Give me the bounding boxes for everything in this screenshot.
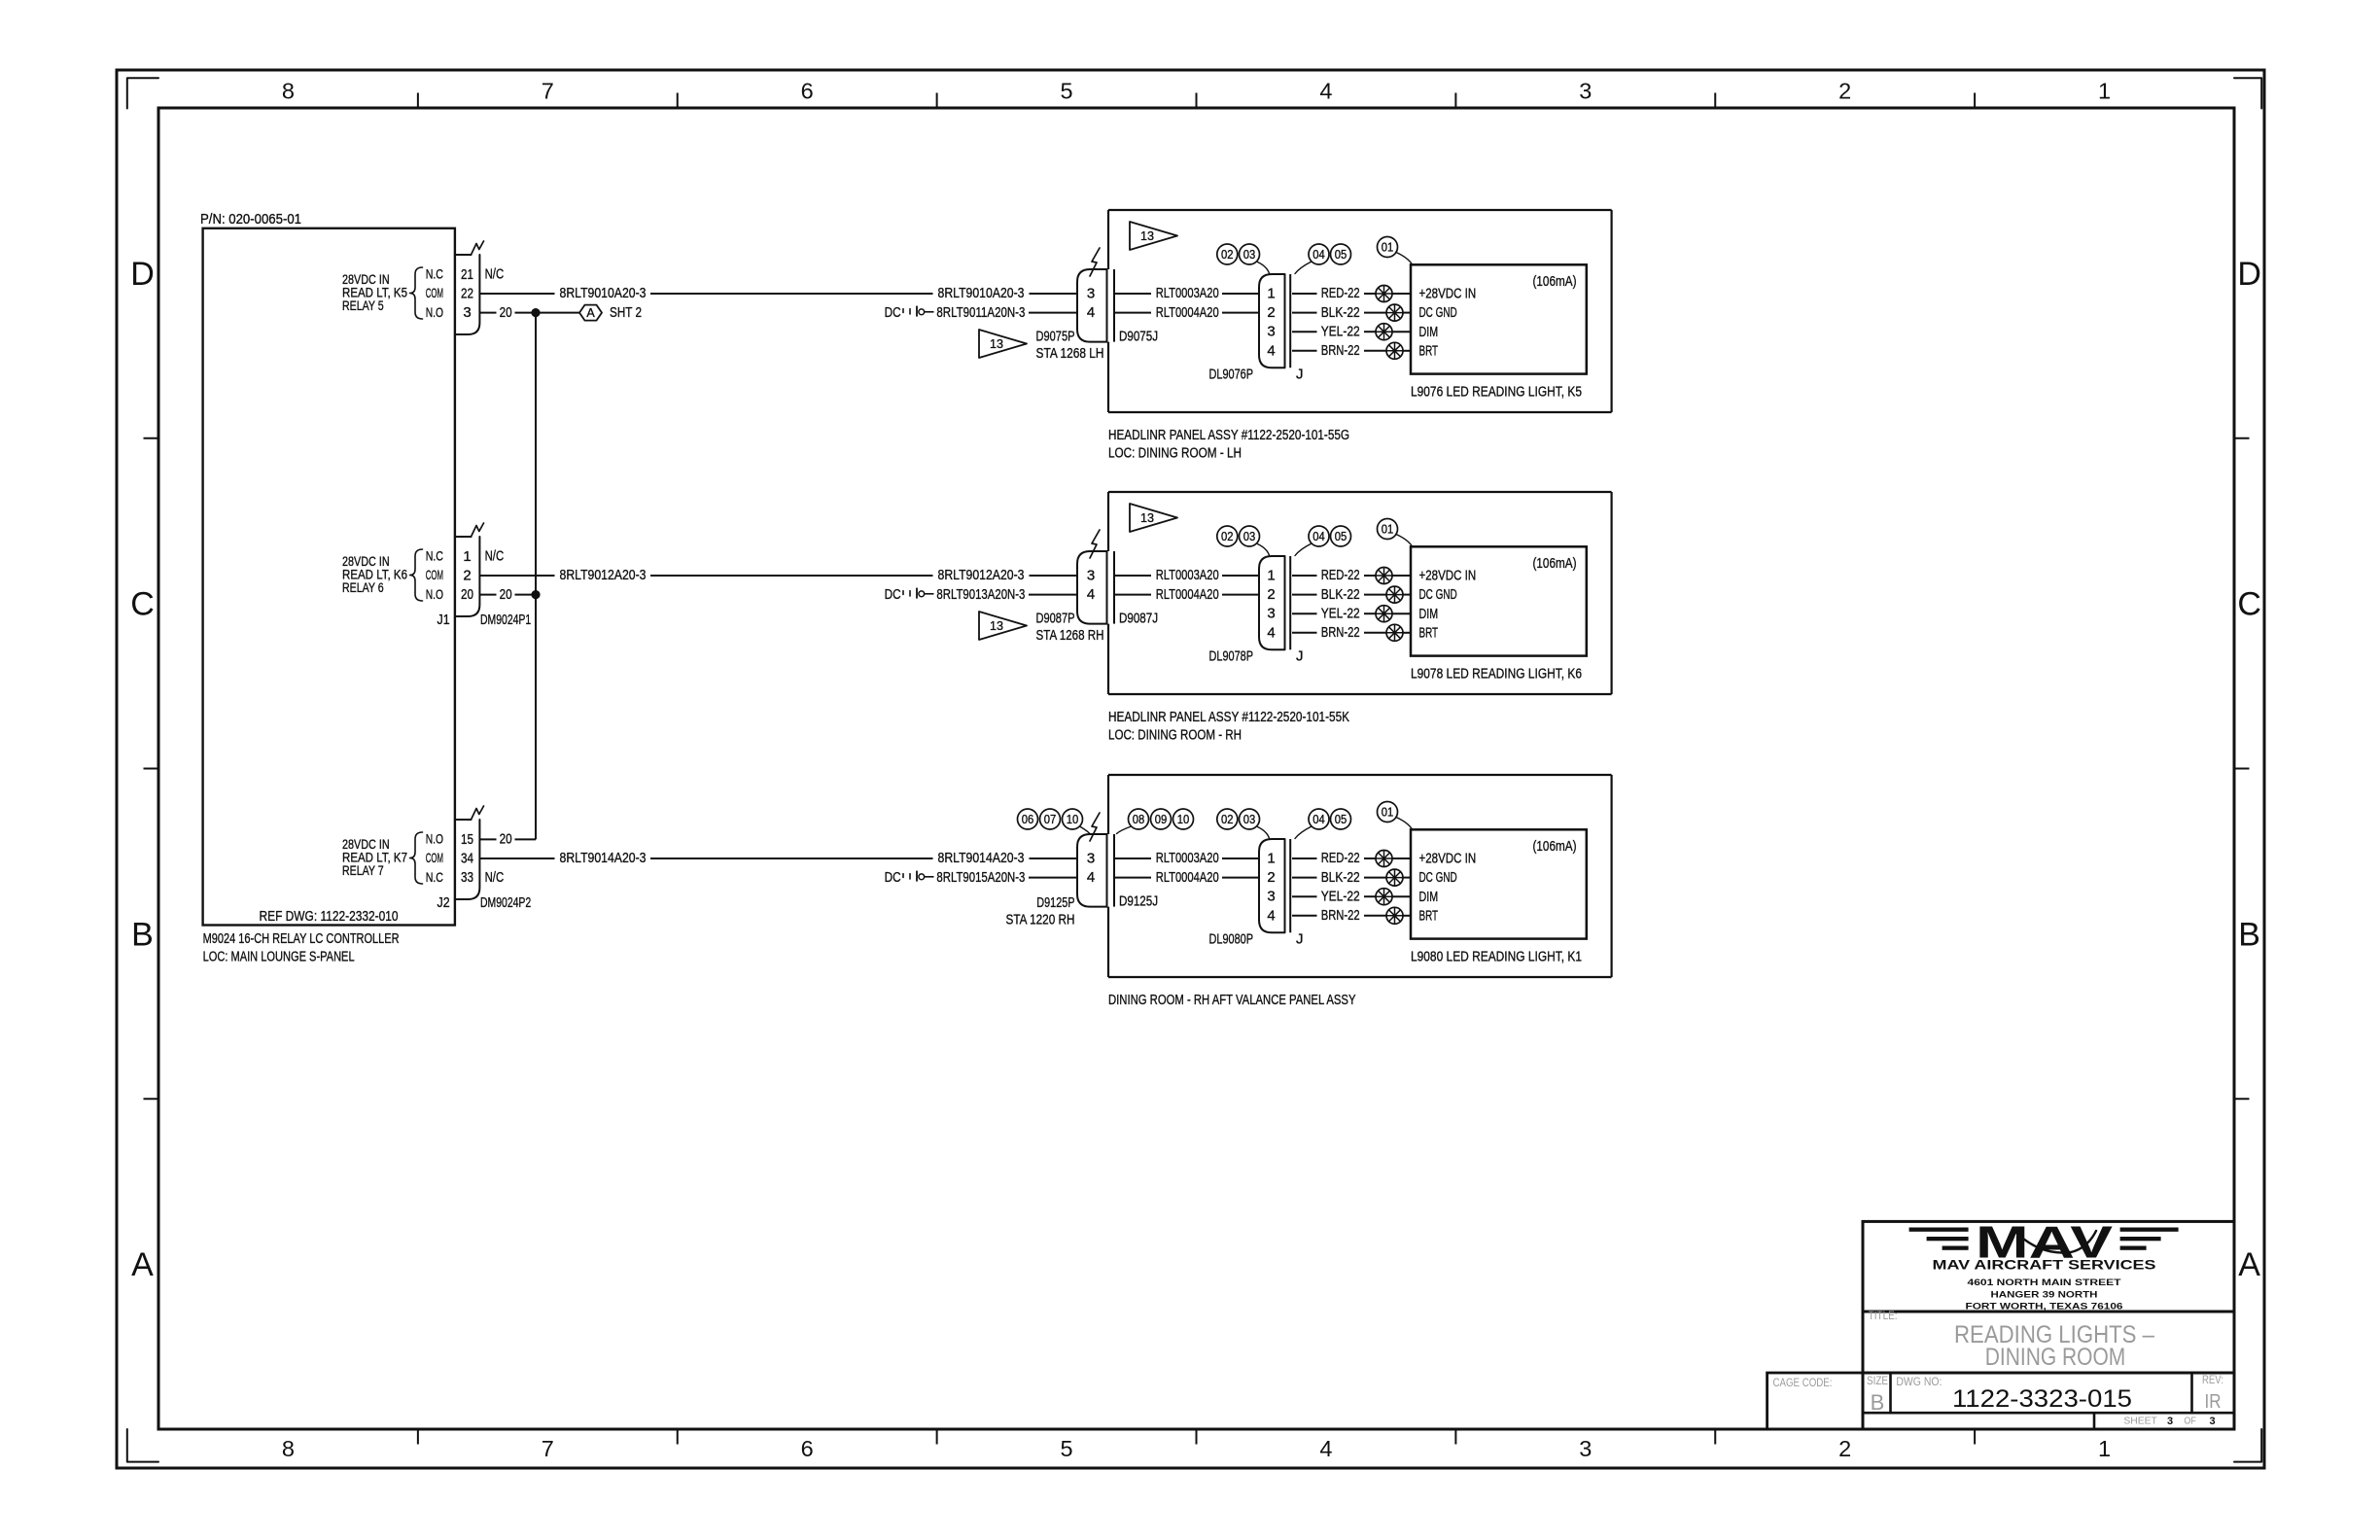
svg-text:J: J xyxy=(1296,366,1304,382)
svg-text:8RLT9014A20-3: 8RLT9014A20-3 xyxy=(938,850,1025,866)
svg-text:D9087J: D9087J xyxy=(1119,611,1158,627)
svg-text:2: 2 xyxy=(1267,869,1275,886)
svg-text:8RLT9015A20N-3: 8RLT9015A20N-3 xyxy=(936,869,1025,886)
svg-text:DC: DC xyxy=(885,304,901,321)
svg-text:A: A xyxy=(2238,1246,2260,1283)
svg-text:SHT 2: SHT 2 xyxy=(610,304,642,321)
svg-text:3: 3 xyxy=(2167,1416,2173,1427)
svg-text:RELAY 6: RELAY 6 xyxy=(342,579,384,595)
svg-text:8RLT9013A20N-3: 8RLT9013A20N-3 xyxy=(936,586,1025,603)
svg-text:BRT: BRT xyxy=(1419,624,1439,641)
svg-text:BRN-22: BRN-22 xyxy=(1321,907,1360,924)
svg-text:D9125J: D9125J xyxy=(1119,893,1158,910)
svg-text:8RLT9011A20N-3: 8RLT9011A20N-3 xyxy=(936,304,1025,321)
svg-text:A: A xyxy=(131,1246,154,1283)
svg-text:M9024 16-CH RELAY LC CONTROLLE: M9024 16-CH RELAY LC CONTROLLER xyxy=(203,930,400,947)
svg-text:RED-22: RED-22 xyxy=(1321,285,1360,301)
svg-text:03: 03 xyxy=(1243,813,1256,826)
svg-text:6: 6 xyxy=(801,78,814,103)
svg-text:22: 22 xyxy=(461,286,473,302)
svg-text:RED-22: RED-22 xyxy=(1321,850,1360,866)
svg-text:RLT0003A20: RLT0003A20 xyxy=(1156,285,1219,301)
svg-text:04: 04 xyxy=(1312,248,1325,262)
svg-text:1: 1 xyxy=(2098,78,2111,103)
svg-text:34: 34 xyxy=(461,851,473,867)
svg-text:HEADLINR PANEL ASSY #1122-2520: HEADLINR PANEL ASSY #1122-2520-101-55K xyxy=(1108,709,1349,725)
svg-text:DM9024P1: DM9024P1 xyxy=(480,612,531,628)
svg-text:4: 4 xyxy=(1087,586,1095,603)
svg-text:3: 3 xyxy=(2209,1416,2215,1427)
svg-text:DIM: DIM xyxy=(1419,324,1439,340)
svg-text:4: 4 xyxy=(1267,907,1275,924)
svg-text:DC GND: DC GND xyxy=(1419,586,1457,603)
svg-text:2: 2 xyxy=(1267,586,1275,603)
svg-text:FORT WORTH, TEXAS 76106: FORT WORTH, TEXAS 76106 xyxy=(1966,1302,2123,1312)
svg-text:3: 3 xyxy=(1087,286,1095,302)
svg-text:LOC: DINING ROOM - RH: LOC: DINING ROOM - RH xyxy=(1108,727,1242,744)
svg-text:04: 04 xyxy=(1312,813,1325,826)
svg-text:02: 02 xyxy=(1221,530,1234,543)
svg-text:10: 10 xyxy=(1067,813,1079,826)
svg-text:+28VDC IN: +28VDC IN xyxy=(1419,851,1477,867)
svg-text:BLK-22: BLK-22 xyxy=(1321,869,1360,886)
svg-text:DIM: DIM xyxy=(1419,889,1439,905)
svg-text:BLK-22: BLK-22 xyxy=(1321,586,1360,603)
svg-text:1: 1 xyxy=(1267,568,1275,584)
svg-text:COM: COM xyxy=(426,285,443,300)
svg-text:RELAY 5: RELAY 5 xyxy=(342,297,384,313)
svg-text:N.O: N.O xyxy=(426,586,443,602)
svg-text:1: 1 xyxy=(463,548,471,565)
svg-text:(106mA): (106mA) xyxy=(1533,555,1577,572)
svg-text:03: 03 xyxy=(1243,530,1256,543)
svg-text:D9075P: D9075P xyxy=(1036,329,1075,345)
svg-text:RLT0004A20: RLT0004A20 xyxy=(1156,869,1219,886)
svg-text:RLT0003A20: RLT0003A20 xyxy=(1156,850,1219,866)
svg-text:BLK-22: BLK-22 xyxy=(1321,304,1360,321)
svg-text:B: B xyxy=(131,916,154,953)
svg-text:2: 2 xyxy=(1267,304,1275,321)
svg-text:B: B xyxy=(2238,916,2260,953)
svg-text:P/N: 020-0065-01: P/N: 020-0065-01 xyxy=(200,211,301,227)
svg-text:13: 13 xyxy=(990,336,1003,351)
svg-text:DL9078P: DL9078P xyxy=(1209,647,1254,664)
svg-text:21: 21 xyxy=(461,266,473,283)
svg-text:(106mA): (106mA) xyxy=(1533,838,1577,855)
svg-text:C: C xyxy=(130,586,155,623)
svg-text:YEL-22: YEL-22 xyxy=(1321,323,1360,339)
svg-text:01: 01 xyxy=(1382,522,1394,536)
svg-text:15: 15 xyxy=(461,831,473,848)
svg-text:09: 09 xyxy=(1155,813,1168,826)
svg-text:N.O: N.O xyxy=(426,304,443,320)
svg-text:B: B xyxy=(1871,1390,1885,1415)
svg-text:STA 1268 LH: STA 1268 LH xyxy=(1036,345,1104,362)
svg-text:20: 20 xyxy=(500,831,512,848)
svg-text:REF DWG: 1122-2332-010: REF DWG: 1122-2332-010 xyxy=(260,908,399,925)
svg-text:05: 05 xyxy=(1335,530,1347,543)
svg-text:01: 01 xyxy=(1382,805,1394,819)
svg-text:4601 NORTH MAIN STREET: 4601 NORTH MAIN STREET xyxy=(1968,1277,2121,1288)
svg-text:COM: COM xyxy=(426,850,443,865)
svg-text:3: 3 xyxy=(463,304,471,321)
svg-text:02: 02 xyxy=(1221,248,1234,262)
svg-text:+28VDC IN: +28VDC IN xyxy=(1419,568,1477,584)
svg-text:(106mA): (106mA) xyxy=(1533,273,1577,290)
svg-text:8RLT9014A20-3: 8RLT9014A20-3 xyxy=(560,850,647,866)
svg-text:BRN-22: BRN-22 xyxy=(1321,342,1360,359)
svg-text:OF: OF xyxy=(2184,1417,2196,1427)
svg-text:1: 1 xyxy=(1267,286,1275,302)
svg-text:8RLT9012A20-3: 8RLT9012A20-3 xyxy=(938,567,1025,583)
svg-text:3: 3 xyxy=(1267,324,1275,340)
svg-text:8RLT9012A20-3: 8RLT9012A20-3 xyxy=(560,567,647,583)
svg-text:D: D xyxy=(130,256,155,293)
svg-text:RLT0004A20: RLT0004A20 xyxy=(1156,586,1219,603)
svg-text:5: 5 xyxy=(1061,1436,1073,1461)
svg-text:10: 10 xyxy=(1177,813,1190,826)
svg-text:8RLT9010A20-3: 8RLT9010A20-3 xyxy=(938,285,1025,301)
svg-text:20: 20 xyxy=(461,586,473,603)
svg-text:N/C: N/C xyxy=(485,548,505,565)
svg-text:2: 2 xyxy=(1838,1436,1851,1461)
svg-text:TITLE:: TITLE: xyxy=(1869,1311,1898,1322)
svg-text:J: J xyxy=(1296,647,1304,664)
svg-text:7: 7 xyxy=(542,78,554,103)
svg-text:3: 3 xyxy=(1579,78,1592,103)
svg-text:N/C: N/C xyxy=(485,869,505,886)
svg-text:D9087P: D9087P xyxy=(1036,611,1075,627)
svg-text:J1: J1 xyxy=(437,612,450,628)
svg-text:D: D xyxy=(2237,256,2261,293)
svg-text:REV:: REV: xyxy=(2202,1375,2223,1386)
svg-text:N.C: N.C xyxy=(426,548,443,564)
svg-text:N.O: N.O xyxy=(426,831,443,847)
svg-text:2: 2 xyxy=(463,568,471,584)
svg-text:BRN-22: BRN-22 xyxy=(1321,624,1360,641)
svg-text:LOC: MAIN LOUNGE S-PANEL: LOC: MAIN LOUNGE S-PANEL xyxy=(203,949,355,965)
svg-text:BRT: BRT xyxy=(1419,342,1439,359)
svg-text:4: 4 xyxy=(1319,78,1332,103)
svg-text:IR: IR xyxy=(2205,1391,2222,1413)
svg-text:DM9024P2: DM9024P2 xyxy=(480,894,531,911)
svg-text:07: 07 xyxy=(1044,813,1057,826)
svg-text:RLT0003A20: RLT0003A20 xyxy=(1156,567,1219,583)
svg-text:13: 13 xyxy=(990,618,1003,633)
svg-text:CAGE CODE:: CAGE CODE: xyxy=(1773,1378,1833,1389)
svg-text:RLT0004A20: RLT0004A20 xyxy=(1156,304,1219,321)
svg-text:STA 1268 RH: STA 1268 RH xyxy=(1036,627,1104,644)
svg-text:J2: J2 xyxy=(437,894,450,911)
svg-text:04: 04 xyxy=(1312,530,1325,543)
svg-text:8: 8 xyxy=(282,78,295,103)
svg-text:L9076 LED READING LIGHT, K5: L9076 LED READING LIGHT, K5 xyxy=(1411,384,1582,401)
svg-text:2: 2 xyxy=(1838,78,1851,103)
svg-text:STA 1220 RH: STA 1220 RH xyxy=(1006,912,1075,928)
svg-text:8: 8 xyxy=(282,1436,295,1461)
svg-text:YEL-22: YEL-22 xyxy=(1321,888,1360,904)
svg-text:02: 02 xyxy=(1221,813,1234,826)
svg-text:A: A xyxy=(586,306,595,320)
svg-text:20: 20 xyxy=(500,586,512,603)
svg-text:33: 33 xyxy=(461,869,473,886)
svg-text:DIM: DIM xyxy=(1419,606,1439,622)
svg-text:MAV AIRCRAFT SERVICES: MAV AIRCRAFT SERVICES xyxy=(1933,1258,2156,1273)
svg-text:4: 4 xyxy=(1087,304,1095,321)
svg-text:DL9076P: DL9076P xyxy=(1209,366,1254,382)
svg-text:YEL-22: YEL-22 xyxy=(1321,605,1360,621)
svg-text:BRT: BRT xyxy=(1419,907,1439,924)
svg-text:L9080 LED READING LIGHT, K1: L9080 LED READING LIGHT, K1 xyxy=(1411,949,1582,965)
svg-text:1: 1 xyxy=(2098,1436,2111,1461)
svg-text:D9125P: D9125P xyxy=(1036,894,1074,911)
svg-text:1: 1 xyxy=(1267,851,1275,867)
svg-text:20: 20 xyxy=(500,304,512,321)
svg-text:DC: DC xyxy=(885,869,901,886)
svg-text:6: 6 xyxy=(801,1436,814,1461)
svg-text:J: J xyxy=(1296,930,1304,947)
svg-text:DINING ROOM: DINING ROOM xyxy=(1985,1344,2126,1371)
svg-text:1122-3323-015: 1122-3323-015 xyxy=(1952,1385,2132,1413)
svg-text:N/C: N/C xyxy=(485,266,505,283)
svg-text:13: 13 xyxy=(1140,510,1154,525)
svg-text:HEADLINR PANEL ASSY #1122-2520: HEADLINR PANEL ASSY #1122-2520-101-55G xyxy=(1108,427,1349,443)
svg-text:L9078 LED READING LIGHT, K6: L9078 LED READING LIGHT, K6 xyxy=(1411,666,1582,682)
svg-text:N.C: N.C xyxy=(426,869,443,885)
svg-text:DL9080P: DL9080P xyxy=(1209,930,1254,947)
svg-text:SHEET: SHEET xyxy=(2123,1417,2157,1427)
svg-text:4: 4 xyxy=(1267,624,1275,641)
svg-text:4: 4 xyxy=(1319,1436,1332,1461)
svg-text:3: 3 xyxy=(1579,1436,1592,1461)
svg-text:DWG NO:: DWG NO: xyxy=(1896,1377,1942,1388)
svg-text:7: 7 xyxy=(542,1436,554,1461)
svg-text:DC GND: DC GND xyxy=(1419,869,1457,886)
svg-text:3: 3 xyxy=(1087,568,1095,584)
svg-text:RED-22: RED-22 xyxy=(1321,567,1360,583)
svg-text:8RLT9010A20-3: 8RLT9010A20-3 xyxy=(560,285,647,301)
svg-text:SIZE: SIZE xyxy=(1867,1376,1888,1387)
svg-text:DC GND: DC GND xyxy=(1419,304,1457,321)
svg-text:DINING ROOM - RH AFT VALANCE P: DINING ROOM - RH AFT VALANCE PANEL ASSY xyxy=(1108,992,1356,1008)
svg-text:RELAY 7: RELAY 7 xyxy=(342,862,384,878)
svg-text:5: 5 xyxy=(1061,78,1073,103)
svg-text:D9075J: D9075J xyxy=(1119,329,1158,345)
svg-text:COM: COM xyxy=(426,567,443,582)
svg-text:3: 3 xyxy=(1267,889,1275,905)
svg-text:LOC: DINING ROOM - LH: LOC: DINING ROOM - LH xyxy=(1108,445,1242,462)
svg-text:+28VDC IN: +28VDC IN xyxy=(1419,286,1477,302)
svg-text:01: 01 xyxy=(1382,240,1394,254)
svg-text:13: 13 xyxy=(1140,228,1154,243)
svg-text:05: 05 xyxy=(1335,813,1347,826)
svg-text:3: 3 xyxy=(1087,851,1095,867)
svg-text:4: 4 xyxy=(1267,342,1275,359)
svg-text:05: 05 xyxy=(1335,248,1347,262)
svg-text:08: 08 xyxy=(1133,813,1145,826)
svg-text:03: 03 xyxy=(1243,248,1256,262)
svg-text:HANGER 39 NORTH: HANGER 39 NORTH xyxy=(1991,1290,2098,1301)
svg-text:N.C: N.C xyxy=(426,266,443,282)
svg-text:06: 06 xyxy=(1022,813,1034,826)
svg-text:4: 4 xyxy=(1087,869,1095,886)
svg-text:DC: DC xyxy=(885,586,901,603)
svg-text:C: C xyxy=(2237,586,2261,623)
svg-text:3: 3 xyxy=(1267,606,1275,622)
